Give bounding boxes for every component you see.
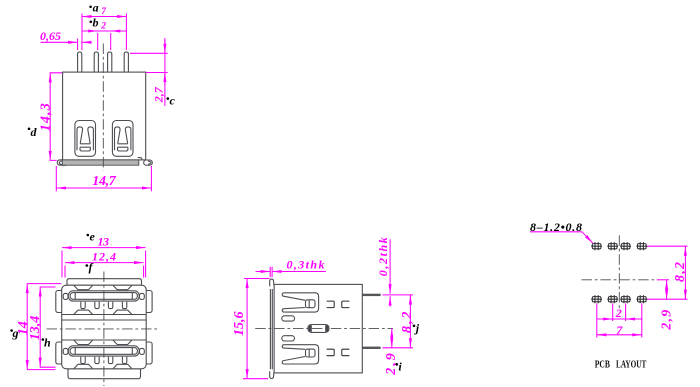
svg-text:14,3: 14,3 (39, 103, 54, 131)
svg-text:13: 13 (98, 235, 110, 249)
svg-text:0,3thk: 0,3thk (287, 257, 325, 271)
svg-text:PCBLAYOUT: PCBLAYOUT (595, 359, 647, 371)
svg-text:h: h (44, 336, 51, 350)
svg-text:i: i (398, 360, 402, 374)
svg-text:8,2: 8,2 (673, 262, 688, 282)
svg-text:b: b (93, 16, 99, 30)
svg-text:0,65: 0,65 (40, 29, 61, 43)
svg-text:15,6: 15,6 (232, 312, 247, 337)
svg-text:a: a (93, 1, 99, 15)
svg-text:e: e (90, 230, 96, 244)
svg-text:g: g (12, 326, 19, 340)
svg-text:d: d (31, 125, 38, 139)
svg-text:7: 7 (101, 7, 107, 17)
svg-text:2: 2 (615, 306, 622, 320)
svg-text:8–1.2•0.8: 8–1.2•0.8 (530, 220, 582, 234)
svg-text:c: c (170, 94, 176, 108)
svg-text:13,4: 13,4 (28, 316, 43, 341)
svg-text:2,9: 2,9 (659, 310, 674, 331)
svg-text:2,7: 2,7 (152, 86, 166, 103)
svg-text:7: 7 (616, 323, 623, 337)
svg-text:0,2thk: 0,2thk (376, 237, 390, 276)
svg-text:8,2: 8,2 (400, 312, 415, 334)
svg-text:14,7: 14,7 (92, 174, 117, 189)
svg-text:12,4: 12,4 (92, 249, 116, 263)
svg-text:2: 2 (100, 22, 106, 32)
